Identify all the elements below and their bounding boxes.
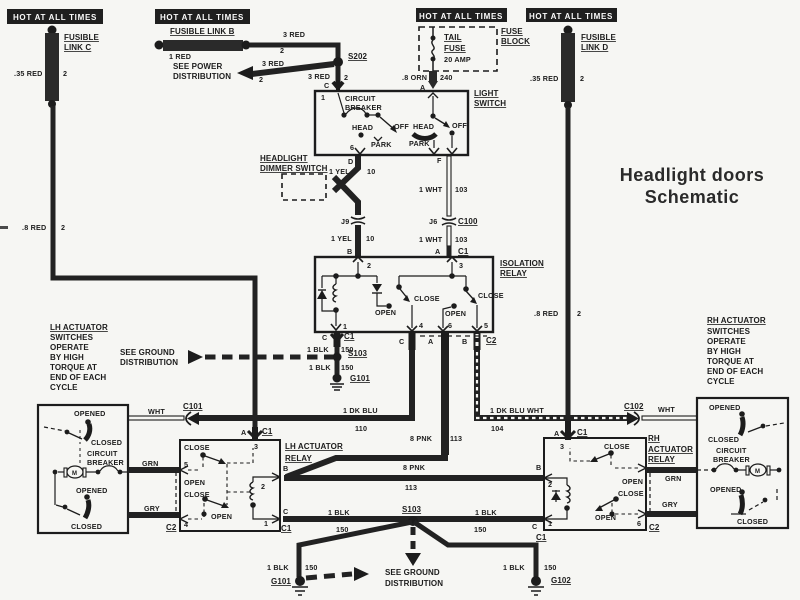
svg-text:M: M — [755, 469, 760, 475]
svg-text:2: 2 — [63, 69, 67, 78]
svg-text:G101: G101 — [271, 577, 291, 586]
svg-text:J6: J6 — [429, 217, 437, 226]
wire GRY LH — [128, 504, 180, 515]
dashed wire from G101 with arrow — [306, 567, 369, 581]
RH relay terminal A C1 — [554, 421, 588, 440]
svg-text:HEAD: HEAD — [413, 122, 434, 131]
wire 1 BLK to G102 bottom — [414, 522, 557, 577]
svg-text:1 WHT: 1 WHT — [419, 235, 443, 244]
wire GRY RH — [646, 500, 697, 514]
svg-text:LIGHT: LIGHT — [474, 89, 499, 98]
RH actuator note text — [707, 316, 766, 386]
svg-text:BY HIGH: BY HIGH — [707, 347, 741, 356]
svg-text:C1: C1 — [262, 427, 273, 436]
see power distribution arrow wire — [173, 59, 348, 84]
svg-text:ACTUATOR: ACTUATOR — [648, 445, 693, 454]
svg-text:RH ACTUATOR: RH ACTUATOR — [707, 316, 766, 325]
hot-at-all-times box 2 — [155, 9, 250, 24]
headlight dimmer switch — [260, 154, 328, 200]
svg-text:103: 103 — [455, 185, 468, 194]
wire GRN RH — [646, 470, 697, 483]
svg-text:2: 2 — [577, 309, 581, 318]
svg-text:103: 103 — [455, 235, 468, 244]
svg-text:TORQUE AT: TORQUE AT — [50, 363, 97, 372]
svg-text:GRY: GRY — [662, 500, 678, 509]
svg-text:A: A — [554, 429, 559, 438]
svg-text:HEAD: HEAD — [352, 123, 373, 132]
svg-text:3: 3 — [254, 442, 258, 451]
svg-text:3: 3 — [459, 261, 463, 270]
svg-text:6: 6 — [637, 519, 641, 528]
svg-text:M: M — [72, 471, 77, 477]
svg-text:S103: S103 — [348, 349, 368, 358]
RH actuator box — [697, 398, 788, 528]
svg-text:240: 240 — [440, 73, 453, 82]
connector J6 C100 — [429, 217, 478, 226]
ground G101 bottom — [271, 576, 308, 595]
wire from S202 to light switch pin C — [324, 66, 343, 91]
svg-text:S202: S202 — [348, 52, 368, 61]
svg-text:150: 150 — [336, 525, 349, 534]
wire 1 WHT light switch F down — [419, 156, 468, 216]
svg-text:150: 150 — [544, 563, 557, 572]
wire 8 PNK from pin6 — [286, 350, 462, 477]
svg-text:OFF: OFF — [394, 122, 409, 131]
svg-text:SEE POWER: SEE POWER — [173, 62, 222, 71]
svg-text:J9: J9 — [341, 217, 349, 226]
svg-text:HOT AT ALL TIMES: HOT AT ALL TIMES — [419, 12, 503, 21]
svg-text:150: 150 — [305, 563, 318, 572]
svg-text:HOT AT ALL TIMES: HOT AT ALL TIMES — [160, 13, 244, 22]
svg-text:END OF EACH: END OF EACH — [50, 373, 106, 382]
svg-text:C1: C1 — [536, 533, 547, 542]
svg-text:END OF EACH: END OF EACH — [707, 367, 763, 376]
connector C2 dashed LH — [166, 472, 177, 532]
wire .8 RED from link D to RH relay — [534, 107, 581, 437]
svg-text:OPEN: OPEN — [445, 309, 466, 318]
svg-text:DISTRIBUTION: DISTRIBUTION — [120, 358, 178, 367]
svg-text:OPEN: OPEN — [184, 478, 205, 487]
wire GRN LH — [128, 459, 180, 470]
svg-text:PARK: PARK — [371, 140, 392, 149]
svg-text:OPERATE: OPERATE — [50, 343, 89, 352]
svg-text:CLOSE: CLOSE — [478, 291, 504, 300]
svg-text:CIRCUIT: CIRCUIT — [87, 449, 118, 458]
svg-text:RELAY: RELAY — [648, 455, 675, 464]
svg-text:SEE GROUND: SEE GROUND — [120, 348, 175, 357]
svg-text:OPEN: OPEN — [595, 513, 616, 522]
svg-text:SWITCHES: SWITCHES — [50, 333, 94, 342]
splice S103 upper — [333, 349, 368, 362]
svg-text:FUSIBLE: FUSIBLE — [581, 33, 616, 42]
wire 1 YEL lower — [331, 225, 374, 257]
svg-text:CLOSED: CLOSED — [91, 438, 122, 447]
svg-text:GRN: GRN — [665, 474, 682, 483]
connector C101 — [183, 402, 203, 425]
RH actuator relay box — [544, 434, 693, 530]
svg-text:HOT AT ALL TIMES: HOT AT ALL TIMES — [13, 13, 97, 22]
svg-text:C101: C101 — [183, 402, 203, 411]
svg-text:OPERATE: OPERATE — [707, 337, 746, 346]
connector C102 — [624, 402, 644, 425]
svg-text:1 DK BLU WHT: 1 DK BLU WHT — [490, 406, 544, 415]
svg-text:113: 113 — [405, 483, 417, 492]
svg-text:8 PNK: 8 PNK — [403, 463, 426, 472]
svg-text:Schematic: Schematic — [645, 187, 740, 207]
LH actuator box — [38, 405, 128, 533]
svg-text:150: 150 — [474, 525, 487, 534]
svg-text:.35 RED: .35 RED — [530, 74, 559, 83]
svg-text:BREAKER: BREAKER — [713, 455, 751, 464]
fusible link D — [530, 26, 616, 110]
svg-text:20 AMP: 20 AMP — [444, 55, 471, 64]
svg-text:3 RED: 3 RED — [283, 30, 305, 39]
svg-text:C2: C2 — [486, 336, 497, 345]
svg-text:2: 2 — [580, 74, 584, 83]
svg-text:2: 2 — [259, 75, 263, 84]
svg-text:FUSIBLE: FUSIBLE — [64, 33, 99, 42]
ground G102 — [528, 576, 571, 595]
svg-text:GRN: GRN — [142, 459, 159, 468]
svg-text:2: 2 — [548, 480, 552, 489]
svg-text:1 BLK: 1 BLK — [328, 508, 350, 517]
svg-text:113: 113 — [450, 434, 462, 443]
svg-text:OPEN: OPEN — [375, 308, 396, 317]
wire .8 RED from link C to LH relay — [22, 106, 255, 437]
wire 8 PNK horizontal to RH relay — [284, 463, 543, 492]
svg-text:1 YEL: 1 YEL — [331, 234, 352, 243]
connector A below tail fuse — [402, 71, 453, 92]
svg-text:1 WHT: 1 WHT — [419, 185, 443, 194]
isolation relay internals — [317, 257, 504, 331]
svg-text:DISTRIBUTION: DISTRIBUTION — [385, 579, 443, 588]
svg-text:CLOSED: CLOSED — [71, 522, 102, 531]
svg-text:G101: G101 — [350, 374, 370, 383]
svg-text:OPEN: OPEN — [622, 477, 643, 486]
hot-at-all-times box 4 — [526, 8, 617, 22]
svg-text:HEADLIGHT: HEADLIGHT — [260, 154, 308, 163]
svg-text:C2: C2 — [649, 523, 660, 532]
svg-text:OPENED: OPENED — [76, 486, 108, 495]
svg-text:B: B — [347, 247, 352, 256]
svg-text:.8 RED: .8 RED — [534, 309, 558, 318]
svg-text:CLOSE: CLOSE — [604, 442, 630, 451]
svg-text:DIMMER SWITCH: DIMMER SWITCH — [260, 164, 328, 173]
svg-text:C: C — [324, 81, 329, 90]
svg-text:2: 2 — [367, 261, 371, 270]
isolation relay pin 1 connector C1 — [322, 332, 355, 347]
svg-text:CIRCUIT: CIRCUIT — [716, 446, 747, 455]
svg-text:10: 10 — [366, 234, 374, 243]
svg-text:1: 1 — [264, 519, 268, 528]
svg-text:OFF: OFF — [452, 121, 467, 130]
svg-text:WHT: WHT — [658, 405, 675, 414]
light switch internals — [321, 93, 467, 166]
svg-text:OPENED: OPENED — [74, 409, 106, 418]
hot-at-all-times box 3 — [416, 8, 507, 22]
svg-text:CYCLE: CYCLE — [50, 383, 78, 392]
isolation relay pin 6 stub — [428, 332, 445, 350]
svg-text:OPEN: OPEN — [211, 512, 232, 521]
svg-text:1 BLK: 1 BLK — [309, 363, 331, 372]
svg-text:110: 110 — [355, 424, 367, 433]
connector C2 dashed RH — [649, 473, 651, 511]
svg-text:1 BLK: 1 BLK — [503, 563, 525, 572]
svg-text:1 BLK: 1 BLK — [307, 345, 329, 354]
svg-text:2: 2 — [344, 73, 348, 82]
svg-text:3: 3 — [560, 442, 564, 451]
svg-text:1 BLK: 1 BLK — [475, 508, 497, 517]
svg-text:C1: C1 — [344, 332, 355, 341]
svg-text:4: 4 — [419, 321, 423, 330]
svg-text:CLOSE: CLOSE — [184, 443, 210, 452]
svg-text:1: 1 — [548, 519, 552, 528]
svg-text:FUSE: FUSE — [444, 44, 466, 53]
svg-text:10: 10 — [367, 167, 375, 176]
svg-text:G102: G102 — [551, 576, 571, 585]
LH relay internals — [180, 442, 280, 529]
svg-text:BLOCK: BLOCK — [501, 37, 530, 46]
svg-text:1 DK BLU: 1 DK BLU — [343, 406, 378, 415]
svg-text:B: B — [283, 464, 288, 473]
svg-text:WHT: WHT — [148, 407, 165, 416]
svg-text:OPENED: OPENED — [709, 403, 741, 412]
svg-text:D: D — [348, 157, 353, 166]
svg-text:LINK C: LINK C — [64, 43, 91, 52]
fusible link B — [155, 27, 251, 61]
svg-text:3 RED: 3 RED — [262, 59, 284, 68]
svg-text:C: C — [322, 333, 327, 342]
svg-text:C2: C2 — [166, 523, 177, 532]
wire WHT from C102 to RH actuator — [642, 405, 697, 420]
svg-text:104: 104 — [491, 424, 504, 433]
svg-text:C: C — [283, 507, 288, 516]
svg-text:HOT AT ALL TIMES: HOT AT ALL TIMES — [529, 12, 613, 21]
svg-text:SWITCHES: SWITCHES — [707, 327, 751, 336]
wire 1 DK BLU WHT striped from pin5 to C102 — [474, 350, 630, 433]
svg-text:5: 5 — [484, 321, 488, 330]
svg-text:BY HIGH: BY HIGH — [50, 353, 84, 362]
svg-text:150: 150 — [341, 363, 354, 372]
svg-text:TORQUE AT: TORQUE AT — [707, 357, 754, 366]
svg-text:C1: C1 — [458, 247, 469, 256]
svg-text:RH: RH — [648, 434, 660, 443]
wire 1 BLK horizontal LH to RH — [283, 508, 543, 534]
svg-text:OPENED: OPENED — [710, 485, 742, 494]
isolation relay box — [315, 257, 544, 332]
wire 1 BLK to S103 — [307, 345, 354, 354]
fuse block dashed box — [419, 27, 530, 71]
svg-text:B: B — [462, 337, 467, 346]
svg-text:CLOSE: CLOSE — [414, 294, 440, 303]
title — [620, 165, 765, 207]
svg-text:CYCLE: CYCLE — [707, 377, 735, 386]
svg-text:RELAY: RELAY — [500, 269, 527, 278]
svg-text:A: A — [241, 428, 246, 437]
wire 1 DK BLU from pin4 to C101 — [196, 350, 412, 433]
tail fuse — [431, 27, 471, 71]
svg-text:C100: C100 — [458, 217, 478, 226]
wire 1 BLK to G101 bottom — [267, 522, 412, 577]
svg-text:1: 1 — [321, 93, 325, 102]
svg-text:1 YEL: 1 YEL — [329, 167, 350, 176]
svg-text:1: 1 — [343, 322, 347, 331]
svg-text:1 BLK: 1 BLK — [267, 563, 289, 572]
svg-text:DISTRIBUTION: DISTRIBUTION — [173, 72, 231, 81]
svg-text:CLOSE: CLOSE — [618, 489, 644, 498]
svg-text:.8 ORN: .8 ORN — [402, 73, 427, 82]
svg-text:3 RED: 3 RED — [308, 72, 330, 81]
svg-text:CLOSED: CLOSED — [737, 517, 768, 526]
svg-text:6: 6 — [350, 143, 354, 152]
svg-text:C1: C1 — [577, 428, 588, 437]
svg-text:FUSE: FUSE — [501, 27, 523, 36]
svg-text:C: C — [532, 522, 537, 531]
RH relay labels B C — [532, 463, 660, 542]
svg-text:A: A — [428, 337, 433, 346]
svg-text:F: F — [437, 156, 442, 165]
svg-text:C102: C102 — [624, 402, 644, 411]
LH relay terminal A C1 — [241, 427, 273, 440]
svg-text:ISOLATION: ISOLATION — [500, 259, 544, 268]
svg-text:C: C — [399, 337, 404, 346]
svg-text:4: 4 — [184, 520, 188, 529]
svg-text:2: 2 — [61, 223, 65, 232]
svg-text:A: A — [435, 247, 440, 256]
wire 1 WHT lower — [419, 226, 469, 257]
LH actuator internals — [44, 409, 128, 531]
isolation relay pin 5 stub striped — [420, 332, 497, 350]
svg-text:TAIL: TAIL — [444, 33, 462, 42]
svg-text:SWITCH: SWITCH — [474, 99, 506, 108]
RH actuator internals — [697, 403, 784, 526]
wire 1 YEL light switch D to isolation relay B — [329, 156, 375, 215]
svg-text:B: B — [536, 463, 541, 472]
RH relay internals — [544, 442, 646, 528]
svg-text:LH ACTUATOR: LH ACTUATOR — [285, 442, 343, 451]
svg-text:CLOSED: CLOSED — [708, 435, 739, 444]
ground G101 upper — [330, 374, 370, 391]
wire WHT from LH actuator to C101 — [128, 407, 184, 420]
svg-text:8 PNK: 8 PNK — [410, 434, 433, 443]
svg-text:1 RED: 1 RED — [169, 52, 191, 61]
svg-text:RELAY: RELAY — [285, 454, 312, 463]
svg-text:.35 RED: .35 RED — [14, 69, 43, 78]
svg-text:Headlight doors: Headlight doors — [620, 165, 765, 185]
wire 3 RED from link B to S202 — [250, 30, 338, 58]
isolation relay pin 4 stub — [399, 332, 412, 350]
hot-at-all-times box 1 — [7, 9, 103, 24]
wire 1 BLK to G101 — [309, 360, 354, 374]
svg-text:6: 6 — [448, 321, 452, 330]
light switch box — [315, 89, 506, 155]
svg-text:2: 2 — [261, 482, 265, 491]
splice S202 — [333, 52, 368, 67]
LH actuator note text — [50, 323, 108, 392]
scan tick mark at left edge — [0, 226, 8, 229]
svg-text:C1: C1 — [281, 524, 292, 533]
see ground distribution dashed wire (middle) — [120, 348, 333, 367]
splice S103 lower — [402, 505, 422, 526]
see ground distribution dashed (bottom) — [385, 527, 443, 588]
LH actuator relay box — [180, 440, 343, 531]
svg-text:S103: S103 — [402, 505, 422, 514]
LH relay labels B C — [281, 464, 292, 533]
svg-text:SEE GROUND: SEE GROUND — [385, 568, 440, 577]
svg-text:PARK: PARK — [409, 139, 430, 148]
svg-text:.8 RED: .8 RED — [22, 223, 46, 232]
connector J9 — [341, 217, 365, 226]
svg-text:LH ACTUATOR: LH ACTUATOR — [50, 323, 108, 332]
svg-text:FUSIBLE LINK B: FUSIBLE LINK B — [170, 27, 235, 36]
svg-text:2: 2 — [280, 46, 284, 55]
svg-text:GRY: GRY — [144, 504, 160, 513]
svg-text:CIRCUIT: CIRCUIT — [345, 94, 376, 103]
svg-text:LINK D: LINK D — [581, 43, 608, 52]
fusible link C — [14, 26, 99, 109]
